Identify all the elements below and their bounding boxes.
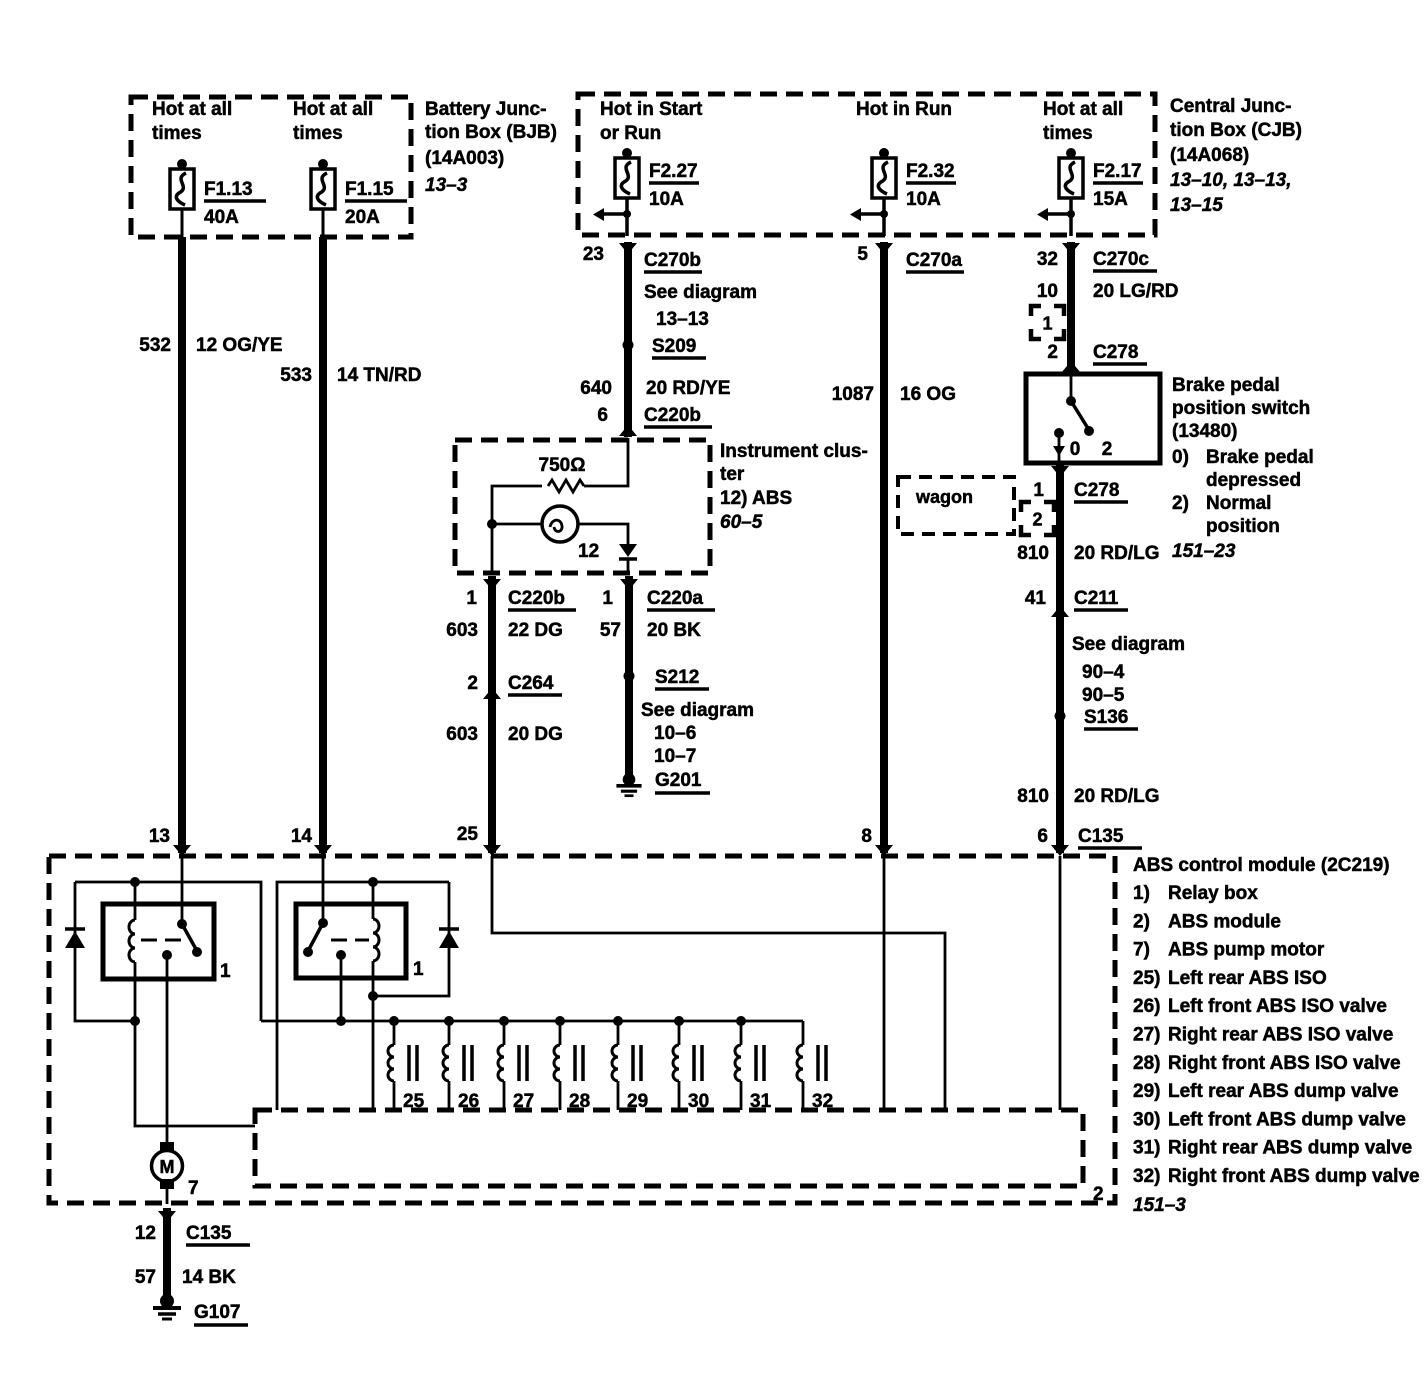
wire fuse F1.13 lead bbox=[181, 209, 184, 237]
wire 1087 16 OG bbox=[880, 242, 888, 853]
label Hot in Start or Run bbox=[600, 99, 703, 144]
connector index 1 bbox=[1031, 306, 1064, 339]
svg-text:G201: G201 bbox=[655, 770, 702, 791]
wire pin 6 to ABS module bbox=[1059, 856, 1062, 1110]
wire pin 14 to relay 2 switch bbox=[322, 856, 325, 923]
svg-text:28): 28) bbox=[1133, 1053, 1160, 1074]
ground G107 bbox=[153, 1294, 248, 1325]
resistor 750 ohm bbox=[548, 480, 584, 492]
ABS control module box (2C219) bbox=[49, 856, 1115, 1203]
wire relay 2 output to valve bus bbox=[340, 955, 343, 1021]
solenoid valve 32 bbox=[797, 1021, 833, 1112]
wire relay 1 to pump motor bbox=[166, 955, 169, 1144]
svg-text:0: 0 bbox=[1070, 439, 1081, 460]
connector C264 pin 2 bbox=[467, 673, 562, 699]
note see diagram 13-13 bbox=[644, 282, 757, 330]
switch contact labels 0 and 2 bbox=[1070, 439, 1113, 460]
wire lamp branch to box edge bbox=[491, 524, 494, 573]
cluster title bbox=[720, 441, 868, 533]
relay 1 coil bbox=[129, 882, 255, 1126]
label Hot at all times (F1.13) bbox=[152, 99, 232, 144]
ABS pump motor M (7) bbox=[152, 1142, 183, 1189]
svg-text:Hot in Start: Hot in Start bbox=[600, 99, 703, 120]
connector C270b pin 23 bbox=[583, 243, 702, 272]
splice S209 bbox=[623, 336, 707, 358]
svg-text:1: 1 bbox=[220, 961, 231, 982]
branch arrow left at fuse x=884 bbox=[850, 208, 888, 221]
BJB title bbox=[425, 99, 557, 196]
svg-text:C278: C278 bbox=[1093, 342, 1138, 363]
svg-text:1: 1 bbox=[413, 959, 424, 980]
svg-text:1: 1 bbox=[1042, 314, 1052, 334]
wire motor to module edge bbox=[166, 1189, 169, 1204]
wire 640 20 RD/YE bbox=[624, 242, 632, 437]
svg-text:90–4: 90–4 bbox=[1082, 662, 1125, 683]
connector C278 pin 2 bbox=[1047, 342, 1147, 372]
node lamp branch junction bbox=[487, 519, 497, 529]
svg-text:20 DG: 20 DG bbox=[508, 724, 563, 745]
node coil 2 top bbox=[368, 877, 378, 887]
wire lamp left lead bbox=[492, 523, 542, 526]
svg-text:tion Box (CJB): tion Box (CJB) bbox=[1170, 120, 1302, 141]
svg-text:C211: C211 bbox=[1074, 588, 1119, 609]
label Hot at all times (F1.15) bbox=[293, 99, 373, 144]
connector C220b pin 1 bbox=[466, 579, 576, 610]
svg-text:Right rear ABS ISO valve: Right rear ABS ISO valve bbox=[1168, 1025, 1393, 1046]
svg-text:C135: C135 bbox=[1078, 826, 1124, 847]
note see diagram 10-6 10-7 bbox=[641, 700, 754, 767]
svg-text:20 RD/LG: 20 RD/LG bbox=[1074, 543, 1160, 564]
svg-text:position switch: position switch bbox=[1172, 398, 1310, 419]
relay 2 output contact bbox=[336, 950, 346, 960]
svg-text:750Ω: 750Ω bbox=[539, 455, 586, 476]
svg-text:1: 1 bbox=[602, 588, 613, 609]
svg-text:603: 603 bbox=[446, 724, 478, 745]
wire 532 12 OG/YE bbox=[178, 237, 186, 853]
svg-text:20 BK: 20 BK bbox=[647, 620, 701, 641]
solenoid valve 27 bbox=[498, 1016, 534, 1112]
svg-text:F1.13: F1.13 bbox=[204, 179, 253, 200]
svg-text:20 LG/RD: 20 LG/RD bbox=[1093, 281, 1179, 302]
svg-text:1: 1 bbox=[466, 588, 477, 609]
svg-text:2: 2 bbox=[1102, 439, 1113, 460]
solenoid valve 31 bbox=[735, 1016, 772, 1112]
svg-text:7: 7 bbox=[188, 1178, 199, 1199]
node coil 1 top bbox=[130, 877, 140, 887]
svg-text:7): 7) bbox=[1133, 940, 1150, 961]
svg-text:ABS pump motor: ABS pump motor bbox=[1168, 940, 1325, 961]
svg-text:32: 32 bbox=[1037, 249, 1058, 270]
relay box 2 bbox=[296, 904, 406, 978]
svg-text:C220a: C220a bbox=[647, 588, 703, 609]
label wire 1087 bbox=[832, 384, 956, 405]
svg-text:12: 12 bbox=[135, 1223, 156, 1244]
solenoid valve 25 bbox=[388, 1016, 425, 1112]
pin 13 bbox=[149, 826, 191, 856]
svg-text:F2.17: F2.17 bbox=[1093, 161, 1142, 182]
svg-text:13–3: 13–3 bbox=[425, 175, 468, 196]
connector C211 pin 41 bbox=[1025, 588, 1128, 617]
wire valve supply bus bbox=[261, 1020, 803, 1023]
svg-text:(14A068): (14A068) bbox=[1170, 145, 1249, 166]
label wire 10 20 LG/RD bbox=[1037, 281, 1179, 302]
wire 603 22 DG bbox=[488, 576, 496, 853]
switch internals bbox=[1053, 376, 1094, 463]
svg-text:13–10, 13–13,: 13–10, 13–13, bbox=[1170, 170, 1292, 191]
battery junction box (BJB) bbox=[131, 97, 411, 237]
svg-text:603: 603 bbox=[446, 620, 478, 641]
wire diode to box edge bbox=[627, 559, 630, 573]
svg-text:C278: C278 bbox=[1074, 480, 1119, 501]
svg-text:13–13: 13–13 bbox=[656, 309, 709, 330]
label Hot at all times bbox=[1043, 99, 1123, 144]
svg-text:2): 2) bbox=[1133, 911, 1150, 932]
branch arrow left at fuse x=1071 bbox=[1037, 208, 1075, 221]
label wire 603 20 DG bbox=[446, 724, 563, 745]
switch title block bbox=[1172, 375, 1314, 562]
svg-text:14 BK: 14 BK bbox=[182, 1267, 236, 1288]
svg-text:F1.15: F1.15 bbox=[345, 179, 394, 200]
connector C220b pin 6 bbox=[597, 405, 712, 436]
wire pin 25 to ABS module bbox=[492, 856, 945, 1110]
svg-text:640: 640 bbox=[580, 378, 612, 399]
connector C135 pin 12 bbox=[135, 1211, 250, 1245]
pin 25 bbox=[457, 824, 501, 856]
connector C220a pin 1 bbox=[602, 579, 715, 610]
connector C278 pin 1 bbox=[1033, 466, 1128, 502]
label wire 603 22 DG bbox=[446, 620, 563, 641]
wire fuse lead x=627 bbox=[625, 198, 629, 236]
wire pin 13 to relay 1 switch bbox=[181, 856, 184, 924]
svg-text:Hot at all: Hot at all bbox=[1043, 99, 1123, 120]
svg-text:C270b: C270b bbox=[644, 250, 701, 271]
svg-text:Right front ABS ISO valve: Right front ABS ISO valve bbox=[1168, 1053, 1401, 1074]
solenoid valve 30 bbox=[673, 1016, 709, 1112]
svg-text:20 RD/YE: 20 RD/YE bbox=[646, 378, 730, 399]
svg-text:Central Junc-: Central Junc- bbox=[1170, 96, 1291, 117]
svg-text:12: 12 bbox=[578, 541, 599, 562]
svg-text:532: 532 bbox=[139, 335, 171, 356]
svg-text:14: 14 bbox=[291, 826, 313, 847]
lamp ABS warning indicator 12 bbox=[542, 506, 578, 542]
svg-text:Instrument clus-: Instrument clus- bbox=[720, 441, 868, 462]
svg-text:C220b: C220b bbox=[644, 405, 701, 426]
svg-text:6: 6 bbox=[597, 405, 608, 426]
branch arrow left at fuse x=627 bbox=[593, 208, 631, 221]
svg-text:29): 29) bbox=[1133, 1081, 1160, 1102]
svg-text:Left rear ABS ISO: Left rear ABS ISO bbox=[1168, 968, 1327, 989]
solenoid valve 29 bbox=[612, 1016, 648, 1112]
svg-text:810: 810 bbox=[1017, 786, 1049, 807]
pin 8 bbox=[861, 826, 893, 856]
svg-text:12 OG/YE: 12 OG/YE bbox=[196, 335, 283, 356]
svg-text:14 TN/RD: 14 TN/RD bbox=[337, 365, 421, 386]
svg-text:1087: 1087 bbox=[832, 384, 874, 405]
wire relay 2 top rail bbox=[277, 882, 449, 1110]
svg-text:810: 810 bbox=[1017, 543, 1049, 564]
svg-text:Left front ABS dump valve: Left front ABS dump valve bbox=[1168, 1109, 1406, 1130]
svg-text:27): 27) bbox=[1133, 1025, 1160, 1046]
svg-text:See diagram: See diagram bbox=[641, 700, 754, 721]
svg-text:41: 41 bbox=[1025, 588, 1047, 609]
wire 533 14 TN/RD bbox=[319, 237, 327, 853]
svg-text:6: 6 bbox=[1037, 826, 1048, 847]
svg-text:ter: ter bbox=[720, 464, 745, 485]
svg-text:(13480): (13480) bbox=[1172, 421, 1238, 442]
relay 2 switch bbox=[303, 918, 369, 957]
svg-text:31): 31) bbox=[1133, 1138, 1160, 1159]
svg-text:depressed: depressed bbox=[1206, 470, 1301, 491]
fuse F2.27 10A bbox=[615, 148, 699, 210]
svg-text:5: 5 bbox=[857, 244, 868, 265]
relay 2 coil bbox=[373, 882, 379, 1110]
wire relay 1 top rail bbox=[75, 882, 261, 1021]
svg-text:See diagram: See diagram bbox=[1072, 634, 1185, 655]
splice S212 bbox=[624, 667, 710, 689]
label wire 532 bbox=[139, 335, 282, 356]
connector index 2 bbox=[1021, 502, 1054, 535]
svg-text:16 OG: 16 OG bbox=[900, 384, 956, 405]
wire fuse F1.15 lead bbox=[322, 209, 325, 237]
label wire 810 lower bbox=[1017, 786, 1159, 807]
svg-text:times: times bbox=[293, 123, 343, 144]
svg-text:26): 26) bbox=[1133, 996, 1160, 1017]
svg-text:30): 30) bbox=[1133, 1109, 1160, 1130]
connector C270a pin 5 bbox=[857, 243, 964, 272]
svg-text:ABS control module (2C219): ABS control module (2C219) bbox=[1133, 855, 1390, 876]
wire 57 20 BK bbox=[625, 576, 633, 776]
wagon option box bbox=[898, 477, 1014, 534]
svg-text:Relay box: Relay box bbox=[1168, 883, 1258, 904]
svg-text:60–5: 60–5 bbox=[720, 512, 763, 533]
node relay 2 output on bus bbox=[336, 1016, 346, 1026]
svg-text:13–15: 13–15 bbox=[1170, 195, 1223, 216]
diode cluster bbox=[619, 544, 637, 559]
wire 10 20 LG/RD bbox=[1067, 242, 1075, 372]
svg-text:2: 2 bbox=[1032, 510, 1042, 530]
svg-text:or Run: or Run bbox=[600, 123, 661, 144]
svg-text:See diagram: See diagram bbox=[644, 282, 757, 303]
svg-text:2: 2 bbox=[1047, 342, 1058, 363]
ABS control module legend bbox=[1133, 855, 1420, 1216]
svg-text:1): 1) bbox=[1133, 883, 1150, 904]
solenoid valve 26 bbox=[443, 1016, 479, 1112]
svg-text:57: 57 bbox=[135, 1267, 156, 1288]
svg-text:Hot in Run: Hot in Run bbox=[856, 99, 952, 120]
wire resistor to lamp branch bbox=[492, 486, 542, 524]
label wire 57 20 BK bbox=[600, 620, 701, 641]
ground G201 bbox=[616, 770, 710, 796]
svg-text:12) ABS: 12) ABS bbox=[720, 488, 792, 509]
svg-text:C135: C135 bbox=[186, 1223, 232, 1244]
label wire 57 14 BK bbox=[135, 1267, 236, 1288]
wire 810 20 RD/LG bbox=[1056, 465, 1064, 853]
label Hot in Run bbox=[856, 99, 952, 120]
node diode D1 / coil 1 return bbox=[130, 1016, 140, 1026]
svg-text:S136: S136 bbox=[1084, 707, 1128, 728]
relay 1 output contact bbox=[162, 950, 172, 960]
svg-text:S209: S209 bbox=[652, 336, 696, 357]
wire fuse lead x=884 bbox=[882, 198, 886, 236]
svg-text:F2.32: F2.32 bbox=[906, 161, 955, 182]
connector C135 pin 6 bbox=[1037, 826, 1142, 856]
svg-text:C270a: C270a bbox=[906, 250, 962, 271]
svg-text:15A: 15A bbox=[1093, 189, 1128, 210]
CJB title bbox=[1170, 96, 1302, 216]
svg-text:S212: S212 bbox=[655, 667, 699, 688]
svg-text:25: 25 bbox=[457, 824, 479, 845]
wire cluster entry bbox=[584, 438, 628, 486]
wire lamp right lead bbox=[578, 524, 628, 544]
svg-text:Brake pedal: Brake pedal bbox=[1172, 375, 1280, 396]
wire 57 14 BK to ground bbox=[163, 1208, 171, 1300]
svg-text:tion Box (BJB): tion Box (BJB) bbox=[425, 122, 557, 143]
svg-text:10–7: 10–7 bbox=[654, 746, 696, 767]
wire pin 8 to ABS module bbox=[883, 856, 886, 1110]
fuse F2.32 10A bbox=[872, 148, 956, 210]
pin 14 bbox=[291, 826, 332, 856]
svg-text:Left rear ABS dump valve: Left rear ABS dump valve bbox=[1168, 1081, 1399, 1102]
central junction box (CJB) bbox=[578, 94, 1155, 235]
instrument cluster box bbox=[455, 440, 710, 573]
svg-text:C264: C264 bbox=[508, 673, 554, 694]
solenoid valve 28 bbox=[554, 1016, 590, 1112]
svg-text:Hot at all: Hot at all bbox=[152, 99, 232, 120]
svg-text:32): 32) bbox=[1133, 1166, 1160, 1187]
svg-text:Hot at all: Hot at all bbox=[293, 99, 373, 120]
label wire 640 bbox=[580, 378, 730, 399]
fuse F1.15 20A bbox=[311, 159, 407, 228]
svg-text:times: times bbox=[152, 123, 202, 144]
svg-text:Right rear ABS dump valve: Right rear ABS dump valve bbox=[1168, 1138, 1412, 1159]
note see diagram 90-4 90-5 bbox=[1072, 634, 1185, 706]
svg-text:40A: 40A bbox=[204, 207, 239, 228]
svg-text:8: 8 bbox=[861, 826, 872, 847]
svg-text:10A: 10A bbox=[649, 189, 684, 210]
svg-text:Right front ABS dump valve: Right front ABS dump valve bbox=[1168, 1166, 1420, 1187]
wire fuse lead x=1071 bbox=[1069, 198, 1073, 236]
relay box 1 bbox=[103, 904, 214, 979]
fuse F2.17 15A bbox=[1059, 148, 1143, 210]
svg-text:ABS module: ABS module bbox=[1168, 911, 1281, 932]
svg-text:20A: 20A bbox=[345, 207, 380, 228]
svg-text:position: position bbox=[1206, 516, 1280, 537]
svg-text:G107: G107 bbox=[194, 1302, 240, 1323]
node diode D2 / coil 2 return bbox=[368, 991, 378, 1001]
diode D2 bbox=[376, 882, 459, 996]
connector C270c pin 32 bbox=[1037, 243, 1157, 271]
svg-text:C220b: C220b bbox=[508, 588, 565, 609]
svg-text:90–5: 90–5 bbox=[1082, 685, 1125, 706]
svg-text:wagon: wagon bbox=[915, 487, 973, 507]
svg-text:2: 2 bbox=[467, 673, 478, 694]
relay 1 switch bbox=[141, 919, 202, 957]
svg-text:23: 23 bbox=[583, 244, 604, 265]
label wire 810 upper bbox=[1017, 543, 1159, 564]
svg-text:F2.27: F2.27 bbox=[649, 161, 698, 182]
svg-text:10: 10 bbox=[1037, 281, 1058, 302]
svg-text:Battery Junc-: Battery Junc- bbox=[425, 99, 546, 120]
svg-text:22 DG: 22 DG bbox=[508, 620, 563, 641]
splice S136 bbox=[1055, 707, 1139, 729]
fuse F1.13 40A bbox=[170, 159, 266, 228]
svg-text:2: 2 bbox=[1093, 1184, 1104, 1205]
svg-text:10–6: 10–6 bbox=[654, 723, 696, 744]
svg-text:13: 13 bbox=[149, 826, 170, 847]
svg-text:M: M bbox=[160, 1157, 175, 1177]
label wire 533 bbox=[280, 365, 421, 386]
svg-text:533: 533 bbox=[280, 365, 312, 386]
svg-text:57: 57 bbox=[600, 620, 621, 641]
diode D1 bbox=[65, 882, 132, 1021]
svg-text:Left front ABS ISO valve: Left front ABS ISO valve bbox=[1168, 996, 1387, 1017]
svg-text:1: 1 bbox=[1033, 480, 1044, 501]
svg-text:25): 25) bbox=[1133, 968, 1160, 989]
svg-text:151–3: 151–3 bbox=[1133, 1195, 1186, 1216]
svg-text:20 RD/LG: 20 RD/LG bbox=[1074, 786, 1160, 807]
svg-text:10A: 10A bbox=[906, 189, 941, 210]
svg-text:2): 2) bbox=[1172, 493, 1189, 514]
svg-text:151–23: 151–23 bbox=[1172, 541, 1236, 562]
svg-text:0): 0) bbox=[1172, 447, 1189, 468]
svg-text:Normal: Normal bbox=[1206, 493, 1271, 514]
svg-text:Brake pedal: Brake pedal bbox=[1206, 447, 1314, 468]
svg-text:times: times bbox=[1043, 123, 1093, 144]
svg-text:(14A003): (14A003) bbox=[425, 148, 504, 169]
svg-text:C270c: C270c bbox=[1093, 249, 1149, 270]
brake pedal position switch (13480) bbox=[1026, 374, 1160, 463]
ABS module inner box (2) bbox=[255, 1110, 1083, 1186]
